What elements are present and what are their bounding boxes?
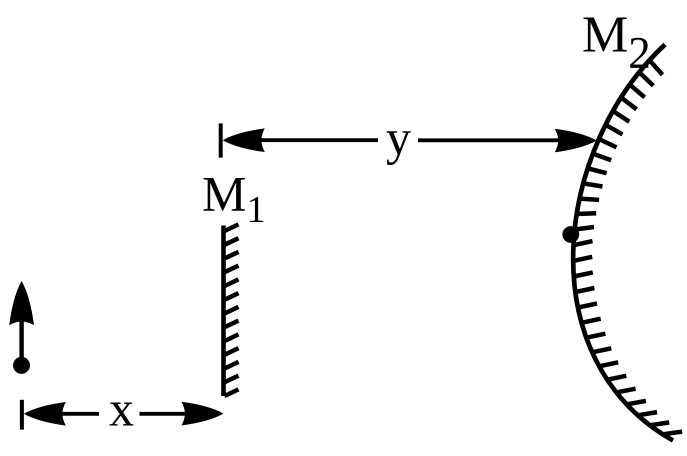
svg-text:y: y [386, 110, 411, 166]
dimension y: left arrowhead [223, 128, 265, 152]
object: arrowhead (up) [9, 281, 34, 325]
mirror M2 arc [573, 45, 673, 441]
dimension y: right shaft [418, 138, 560, 142]
mirror M2 hatching [573, 60, 682, 434]
object: arrow shaft [19, 315, 23, 360]
dimension y: left tick [219, 123, 223, 157]
dimension x: right shaft [140, 412, 189, 416]
dimension x: right arrowhead [182, 402, 224, 426]
dimension x: left tick [20, 400, 24, 430]
mirror M1 hatching [225, 224, 239, 396]
dimension x: left arrowhead [24, 402, 66, 426]
point on mirror M2 [562, 226, 579, 243]
object: dot [13, 357, 30, 374]
dimension y: right arrowhead [555, 129, 597, 153]
svg-text:M2: M2 [582, 7, 651, 78]
svg-text:x: x [109, 381, 134, 437]
mirror M1 line [221, 226, 226, 397]
svg-text:M1: M1 [202, 166, 265, 232]
dimension x: left shaft [59, 412, 99, 416]
dimension y: left shaft [258, 138, 378, 142]
